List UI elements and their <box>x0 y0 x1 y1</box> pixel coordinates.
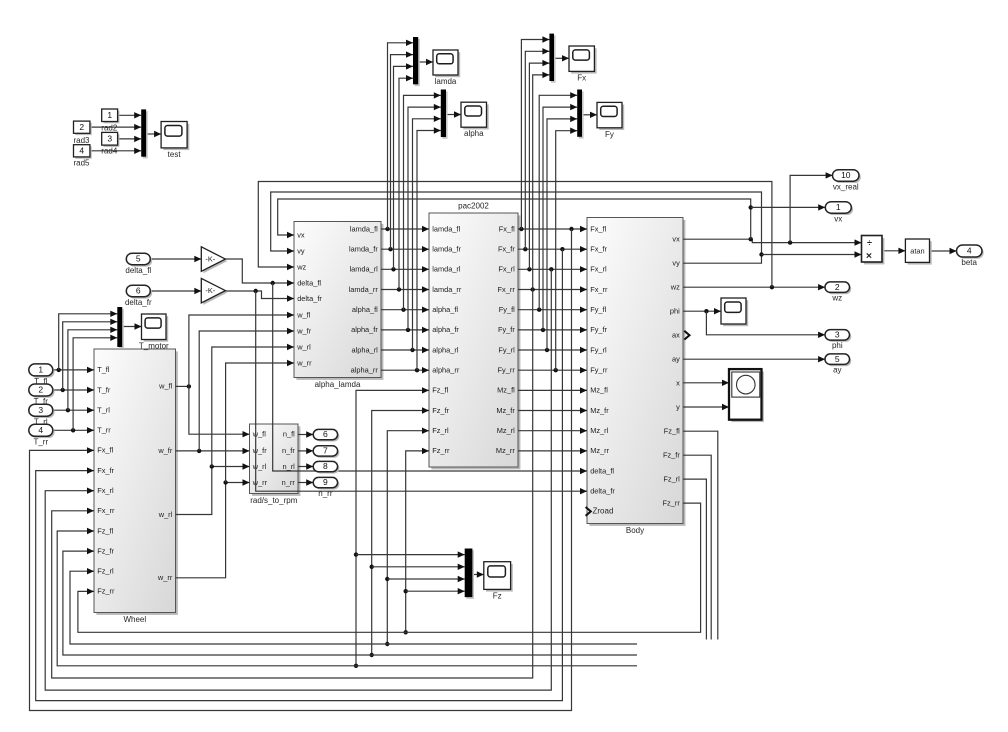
wire y net to XY Graph <box>683 404 729 410</box>
svg-text:lamda_rl: lamda_rl <box>349 265 378 274</box>
svg-text:alpha_rl: alpha_rl <box>352 345 379 354</box>
port oval In5 <box>125 253 152 275</box>
wire phi net to Scope2 <box>683 308 721 314</box>
wire vy branch to Divide <box>762 251 862 257</box>
svg-text:Fx_rl: Fx_rl <box>97 486 114 495</box>
wire Mz_fr net <box>518 407 587 413</box>
wire Fz_rl bottom to Wheel <box>70 568 637 644</box>
wire T_rl net <box>53 407 94 413</box>
wire Fz Mux to Scope <box>472 571 483 577</box>
svg-text:n_rr: n_rr <box>282 478 296 487</box>
svg-text:Fx_rl: Fx_rl <box>590 265 607 274</box>
svg-text:w_rr: w_rr <box>296 358 312 367</box>
svg-text:w_fr: w_fr <box>252 446 268 455</box>
wire w_rr to rad/s_to_rpm <box>176 479 250 578</box>
svg-text:alpha_fl: alpha_fl <box>352 305 378 314</box>
port oval In4 <box>29 424 55 446</box>
port oval Out7 n_fr <box>313 446 339 458</box>
svg-text:Mz_fr: Mz_fr <box>590 406 609 415</box>
wire w_rl to rad/s_to_rpm <box>176 463 250 514</box>
svg-text:2: 2 <box>835 282 840 292</box>
wire Fz_rr loop to Wheel <box>78 503 701 632</box>
wire Fx_rr riser to Fx Mux <box>533 72 550 290</box>
svg-text:2: 2 <box>38 385 43 395</box>
svg-text:2: 2 <box>79 122 84 132</box>
svg-text:wz: wz <box>831 294 842 303</box>
wire w_fl to alpha_lamda <box>189 312 294 387</box>
wire lamda_rl net <box>381 266 429 272</box>
mux lamda <box>413 37 420 86</box>
svg-text:Fx_fr: Fx_fr <box>498 245 515 254</box>
port oval In6 <box>125 285 152 307</box>
wire Fz_rl branch to Fz Mux <box>387 576 464 582</box>
svg-text:vx: vx <box>834 214 842 223</box>
wire Constant3 to test Mux in3 <box>118 136 142 142</box>
wire Fy_rl riser to Fy Mux <box>547 116 577 350</box>
svg-text:Fz_fl: Fz_fl <box>97 526 113 535</box>
wire Fy_fl riser to Fy Mux <box>539 92 577 310</box>
wire w_fr branch to alpha_lamda <box>199 328 294 451</box>
svg-text:Mz_rr: Mz_rr <box>590 446 609 455</box>
svg-text:Fy_fr: Fy_fr <box>498 325 515 334</box>
svg-text:5: 5 <box>136 254 141 264</box>
gain Gain2 <box>201 278 227 305</box>
port oval Out2 wz <box>825 282 851 303</box>
mux test <box>141 109 148 158</box>
svg-text:T_fl: T_fl <box>97 365 110 374</box>
svg-text:Fz_rl: Fz_rl <box>663 474 680 483</box>
wire delta_fr branch to Body <box>256 291 587 494</box>
svg-text:Body: Body <box>626 526 644 535</box>
wire lamda_fr riser to lamda Mux <box>391 51 414 249</box>
wire Fz_fl from Body down <box>683 431 718 639</box>
wire w_fl to rad/s_to_rpm <box>189 386 250 437</box>
constant Constant3 <box>102 132 120 147</box>
svg-text:delta_fl: delta_fl <box>297 278 321 287</box>
svg-text:rad4: rad4 <box>101 146 118 155</box>
svg-text:Fz: Fz <box>493 591 502 600</box>
svg-text:×: × <box>866 250 872 262</box>
svg-text:alpha_rr: alpha_rr <box>432 366 460 375</box>
wire Fz_fl riser to pac2002 <box>354 387 429 668</box>
port oval Out6 n_fl <box>313 429 339 441</box>
wire vx_real branch to out10 <box>790 172 833 242</box>
wire delta_fl in5 to Gain1 <box>150 256 201 262</box>
constant Constant1 <box>102 109 120 123</box>
svg-text:w_rr: w_rr <box>252 478 268 487</box>
unconnected port chevron Zroad input <box>586 507 591 516</box>
port oval Out1 vx <box>825 202 853 224</box>
wire Fy_fl net <box>518 307 587 313</box>
wire Divide to atan <box>882 248 905 254</box>
wire Fy Mux to Scope <box>582 112 597 118</box>
svg-text:4: 4 <box>38 425 43 435</box>
wire Fz_fr branch to Fz Mux <box>372 564 465 570</box>
svg-text:vx: vx <box>297 230 305 239</box>
svg-text:w_rr: w_rr <box>157 573 173 582</box>
svg-text:beta: beta <box>961 258 977 267</box>
wire test Mux to test Scope <box>146 131 161 137</box>
svg-text:Fx_rr: Fx_rr <box>590 285 608 294</box>
svg-text:Zroad: Zroad <box>593 507 614 516</box>
svg-text:lamda_rl: lamda_rl <box>432 265 461 274</box>
svg-text:Fz_rr: Fz_rr <box>663 498 681 507</box>
svg-text:w_fl: w_fl <box>296 310 311 319</box>
wire Fx_fr net <box>518 246 587 252</box>
svg-text:Mz_rr: Mz_rr <box>496 446 515 455</box>
svg-text:test: test <box>168 150 182 159</box>
svg-text:ay: ay <box>672 355 680 364</box>
wire alpha Mux to Scope <box>446 111 461 117</box>
wire T_rr net <box>53 427 94 433</box>
svg-text:÷: ÷ <box>867 238 872 248</box>
svg-text:3: 3 <box>107 134 112 144</box>
subsystem rad/s_to_rpm <box>250 424 301 505</box>
port oval Out10 vx_real <box>833 170 861 192</box>
svg-text:w_fl: w_fl <box>158 382 173 391</box>
scope Fx <box>569 46 597 82</box>
svg-text:Fx_fl: Fx_fl <box>590 224 606 233</box>
svg-text:Fz_fr: Fz_fr <box>97 546 114 555</box>
wire T_fr branch to T_motor Mux <box>63 319 118 390</box>
wire vx branch to out1 <box>751 204 826 210</box>
svg-text:phi: phi <box>670 307 680 316</box>
svg-text:alpha_fr: alpha_fr <box>432 325 459 334</box>
svg-text:wz: wz <box>296 262 306 271</box>
wire alpha_fr riser to alpha Mux <box>408 104 441 330</box>
svg-text:Fy_fr: Fy_fr <box>590 325 607 334</box>
svg-text:Fz_rl: Fz_rl <box>97 567 114 576</box>
svg-text:n_rl: n_rl <box>282 462 295 471</box>
svg-text:Fy_fl: Fy_fl <box>590 305 606 314</box>
wire atan to out4 beta <box>930 248 957 254</box>
svg-text:atan: atan <box>910 247 924 256</box>
svg-text:lamda_fr: lamda_fr <box>432 245 461 254</box>
svg-text:3: 3 <box>38 405 43 415</box>
svg-text:Fz_rr: Fz_rr <box>97 587 115 596</box>
wire alpha_fl riser to alpha Mux <box>404 92 441 310</box>
svg-text:Wheel: Wheel <box>123 615 146 624</box>
svg-text:wz: wz <box>670 283 680 292</box>
svg-text:phi: phi <box>832 341 843 350</box>
wire w_fr to rad/s_to_rpm <box>176 448 250 454</box>
svg-text:w_fr: w_fr <box>296 326 312 335</box>
svg-text:Fx_fl: Fx_fl <box>499 224 515 233</box>
wire Fx_fl feedback to Wheel <box>30 229 572 711</box>
unconnected port chevron ax output <box>684 331 689 340</box>
wire Fz_rr riser to pac2002 <box>404 448 430 635</box>
mux alpha <box>441 90 448 139</box>
svg-text:Mz_rl: Mz_rl <box>497 426 515 435</box>
wire ay net to out5 <box>683 356 825 362</box>
svg-text:Mz_fl: Mz_fl <box>590 386 608 395</box>
svg-text:w_fl: w_fl <box>252 430 267 439</box>
svg-text:delta_fr: delta_fr <box>297 294 322 303</box>
svg-text:T_rr: T_rr <box>33 438 48 447</box>
mux Fx <box>549 34 555 83</box>
mux T_motor <box>117 307 124 349</box>
divide block U1 <box>862 236 885 265</box>
svg-text:6: 6 <box>323 429 328 439</box>
wire lamda_rl riser to lamda Mux <box>394 63 414 269</box>
svg-text:Fz_fr: Fz_fr <box>663 451 680 460</box>
wire Fy_fr net <box>518 327 587 333</box>
wire Fx_rr feedback to Wheel <box>52 290 533 679</box>
wire Fx_fl riser to Fx Mux <box>521 36 549 229</box>
svg-text:Mz_fr: Mz_fr <box>496 406 515 415</box>
svg-text:Fx_rr: Fx_rr <box>498 285 516 294</box>
scope test <box>161 122 189 159</box>
wire alpha_rr riser to alpha Mux <box>417 127 441 370</box>
svg-text:w_rl: w_rl <box>158 510 173 519</box>
wire lamda_rr net <box>381 286 429 292</box>
wire Constant4 to test Mux in4 <box>90 148 141 154</box>
svg-text:Fz_fl: Fz_fl <box>432 386 448 395</box>
wire T_fr net <box>53 387 94 393</box>
wire w_rr branch to alpha_lamda <box>226 360 294 483</box>
svg-text:delta_fr: delta_fr <box>125 298 152 307</box>
svg-text:Fy_fl: Fy_fl <box>499 305 515 314</box>
port oval In2 <box>29 384 55 406</box>
subsystem Body <box>587 218 685 536</box>
svg-text:delta_fl: delta_fl <box>590 466 614 475</box>
svg-text:x: x <box>676 379 680 388</box>
svg-text:w_rl: w_rl <box>296 342 311 351</box>
svg-text:6: 6 <box>136 286 141 296</box>
svg-text:lamda_fl: lamda_fl <box>432 224 460 233</box>
wire T_fl branch to T_motor Mux <box>59 311 118 370</box>
wire Fx_fl net <box>518 226 587 232</box>
svg-text:rad/s_to_rpm: rad/s_to_rpm <box>250 496 297 505</box>
svg-text:lamda_fr: lamda_fr <box>349 245 378 254</box>
wire Fy_rr riser to Fy Mux <box>556 128 578 371</box>
svg-text:8: 8 <box>323 461 328 471</box>
wire Fy_rl net <box>518 347 587 353</box>
wire delta_fr in6 to Gain2 <box>150 288 201 294</box>
subsystem alpha_lamda <box>294 222 383 390</box>
port oval In3 <box>29 404 55 426</box>
wire Fy_rr net <box>518 367 587 373</box>
svg-text:Fy_rl: Fy_rl <box>590 345 607 354</box>
wire n_rl to out8 <box>298 463 313 469</box>
wire Fz_rl riser to pac2002 <box>385 428 429 647</box>
mux Fy <box>577 90 583 139</box>
wire alpha_fl net <box>381 307 429 313</box>
subsystem pac2002 <box>429 202 520 470</box>
wire phi branch to out3 <box>706 311 825 338</box>
wire alpha_fr net <box>381 327 429 333</box>
svg-text:lamda_rr: lamda_rr <box>349 285 379 294</box>
svg-text:delta_fl: delta_fl <box>125 266 151 275</box>
svg-text:delta_fr: delta_fr <box>590 487 615 496</box>
svg-text:1: 1 <box>38 365 43 375</box>
wire Constant2 to test Mux in2 <box>90 124 141 130</box>
port oval Out9 n_rr <box>313 477 339 498</box>
atan block <box>905 239 931 265</box>
svg-text:ay: ay <box>833 366 841 375</box>
svg-text:w_rl: w_rl <box>252 462 267 471</box>
svg-text:n_fr: n_fr <box>282 446 295 455</box>
wire T_rl branch to T_motor Mux <box>68 327 117 411</box>
wire T_rr branch to T_motor Mux <box>73 335 117 431</box>
svg-text:ax: ax <box>672 331 680 340</box>
svg-text:alpha_fl: alpha_fl <box>432 305 458 314</box>
svg-text:4: 4 <box>967 246 972 256</box>
svg-text:alpha_fr: alpha_fr <box>351 325 378 334</box>
wire Fx_fr riser to Fx Mux <box>525 48 549 249</box>
svg-text:Fx_fl: Fx_fl <box>97 446 113 455</box>
svg-text:alpha_rl: alpha_rl <box>432 345 459 354</box>
wire lamda_fl net <box>381 226 429 232</box>
svg-text:10: 10 <box>841 170 851 180</box>
wire Fz_fr riser to pac2002 <box>370 407 430 657</box>
wire Fx_fr feedback to Wheel <box>36 249 563 700</box>
svg-text:Fz_fl: Fz_fl <box>664 427 680 436</box>
wire Mz_rl net <box>518 428 587 434</box>
svg-text:Fz_fr: Fz_fr <box>432 406 449 415</box>
wire Fz_fl bottom to Wheel <box>57 528 637 666</box>
wire Fz_fr bottom to Wheel <box>63 548 637 655</box>
svg-text:lamda_fl: lamda_fl <box>350 224 378 233</box>
svg-text:pac2002: pac2002 <box>458 202 489 211</box>
scope lamda <box>433 50 460 86</box>
wire Fz_rl from Body down <box>683 479 706 639</box>
svg-text:Mz_fl: Mz_fl <box>497 386 515 395</box>
svg-text:T_rr: T_rr <box>97 426 111 435</box>
wire Fx Mux to Scope <box>554 55 569 61</box>
svg-text:vy: vy <box>297 246 305 255</box>
svg-text:vy: vy <box>672 259 680 268</box>
svg-text:Fx_fr: Fx_fr <box>97 466 114 475</box>
wire lamda_rr riser to lamda Mux <box>399 75 413 290</box>
svg-text:Fx_fr: Fx_fr <box>590 245 607 254</box>
wire T_motor Mux to Scope <box>122 323 141 329</box>
wire x net to XY Graph <box>683 380 729 386</box>
wire T_fl net <box>53 367 94 373</box>
svg-text:4: 4 <box>79 146 84 156</box>
wire Constant1 to test Mux in1 <box>118 112 142 118</box>
svg-text:rad2: rad2 <box>101 124 118 133</box>
wire vy net to alpha_lamda <box>271 192 764 263</box>
svg-text:5: 5 <box>835 354 840 364</box>
wire Fz_fr from Body down <box>683 455 711 639</box>
svg-text:T_fr: T_fr <box>97 385 111 394</box>
port oval Out5 ay <box>825 354 851 375</box>
svg-text:1: 1 <box>836 202 841 212</box>
svg-text:Mz_rl: Mz_rl <box>590 426 608 435</box>
svg-text:T_motor: T_motor <box>139 342 169 351</box>
svg-text:Fy: Fy <box>605 130 614 139</box>
scope Fz <box>484 562 513 601</box>
svg-text:Fy_rl: Fy_rl <box>498 345 515 354</box>
scope alpha <box>461 102 489 138</box>
wire Fx_rr net <box>518 286 587 292</box>
scope T_motor <box>139 314 169 351</box>
svg-text:1: 1 <box>107 110 112 120</box>
constant Constant2 <box>74 121 92 135</box>
svg-text:3: 3 <box>835 330 840 340</box>
scope Fy <box>597 102 624 138</box>
svg-text:rad3: rad3 <box>73 136 90 145</box>
wire n_fr to out7 <box>298 448 313 454</box>
wire lamda_fl riser to lamda Mux <box>388 40 414 229</box>
wire Gain1 to alpha_lamda delta_fl <box>225 259 294 286</box>
wire Gain2 to alpha_lamda delta_fr <box>225 289 294 302</box>
svg-text:Fy_rr: Fy_rr <box>498 366 516 375</box>
wire alpha_rl net <box>381 347 429 353</box>
wire w_fl stub <box>176 384 192 388</box>
svg-text:Fx: Fx <box>577 73 586 82</box>
wire vx feedback to alpha_lamda <box>278 199 753 239</box>
wire Fy_fr riser to Fy Mux <box>543 104 577 330</box>
svg-text:lamda: lamda <box>435 77 457 86</box>
svg-text:-K-: -K- <box>205 286 215 295</box>
svg-text:Fx_rl: Fx_rl <box>498 265 515 274</box>
svg-text:7: 7 <box>323 446 328 456</box>
wire Fz_fl branch to Fz Mux <box>356 551 465 557</box>
svg-text:alpha_rr: alpha_rr <box>351 366 379 375</box>
wire lamda_fr net <box>381 246 429 252</box>
wire delta_fl branch to Body <box>273 283 587 474</box>
wire alpha_rr net <box>381 367 429 373</box>
wire Fx_rl riser to Fx Mux <box>529 60 549 269</box>
port oval In1 <box>29 364 55 386</box>
port oval Out3 phi <box>825 330 851 351</box>
gain Gain1 <box>201 247 227 273</box>
svg-text:Fy_rr: Fy_rr <box>590 366 608 375</box>
svg-text:-K-: -K- <box>205 254 215 263</box>
XY Graph block <box>729 369 764 422</box>
svg-text:vx_real: vx_real <box>833 182 859 191</box>
svg-text:n_fl: n_fl <box>283 430 295 439</box>
svg-text:alpha: alpha <box>464 129 484 138</box>
wire lamda Mux to Scope <box>418 59 433 65</box>
wire Fz_rr branch to Fz Mux <box>406 588 465 594</box>
wire Fx_rl feedback to Wheel <box>45 269 551 690</box>
wire n_rr to out9 <box>298 479 313 485</box>
svg-text:rad5: rad5 <box>73 159 90 168</box>
subsystem Wheel <box>94 349 178 624</box>
svg-text:n_rr: n_rr <box>318 489 333 498</box>
wire wz net to out2 <box>683 284 825 290</box>
wire alpha_rl riser to alpha Mux <box>413 116 441 350</box>
wire Fx_rl net <box>518 266 587 272</box>
svg-text:9: 9 <box>323 477 328 487</box>
svg-text:alpha_lamda: alpha_lamda <box>315 380 361 389</box>
scope phi <box>721 298 748 326</box>
svg-text:y: y <box>676 403 680 412</box>
svg-text:Fz_rl: Fz_rl <box>432 426 449 435</box>
wire w_rl branch to alpha_lamda <box>212 344 294 467</box>
svg-text:T_rl: T_rl <box>97 406 110 415</box>
wire wz feedback to alpha_lamda <box>258 182 772 288</box>
svg-text:lamda_rr: lamda_rr <box>432 285 462 294</box>
svg-text:Fx_rr: Fx_rr <box>97 506 115 515</box>
port oval Out4 beta <box>957 245 984 267</box>
wire Mz_rr net <box>518 448 587 454</box>
svg-text:vx: vx <box>672 235 680 244</box>
mux Fz <box>465 549 474 599</box>
port oval Out8 n_rl <box>313 461 339 473</box>
wire vx net to Divide <box>683 237 862 246</box>
wire n_fl to out6 <box>298 431 313 437</box>
svg-text:w_fr: w_fr <box>157 446 173 455</box>
svg-text:Fz_rr: Fz_rr <box>432 446 450 455</box>
constant Constant4 <box>74 145 92 159</box>
wire Mz_fl net <box>518 387 587 393</box>
